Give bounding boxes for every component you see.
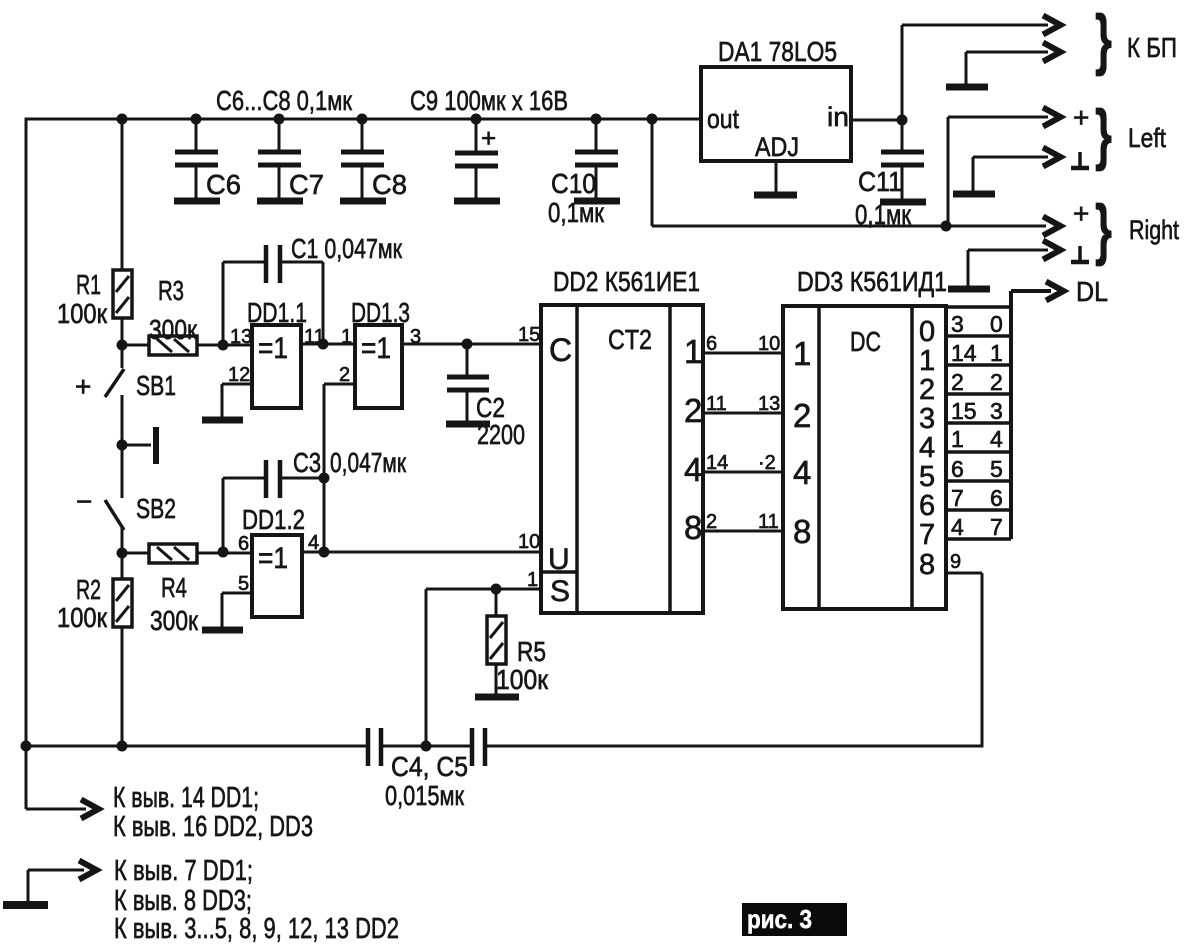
capacitor C11: [855, 120, 926, 230]
svg-text:2: 2: [706, 511, 717, 533]
svg-text:8: 8: [919, 549, 935, 581]
svg-text:SB2: SB2: [136, 493, 176, 524]
svg-text:6: 6: [238, 533, 249, 555]
svg-text:13: 13: [758, 393, 780, 415]
ground feeding Right ⊥ arrow: [948, 250, 1048, 289]
svg-text:300к: 300к: [149, 314, 198, 345]
junction dots on top bus: [117, 114, 952, 232]
svg-text:=1: =1: [258, 542, 288, 575]
resistor R3 300к: [122, 275, 252, 355]
svg-text:3: 3: [951, 311, 964, 337]
svg-text:−: −: [76, 486, 92, 517]
figure label рис. 3: [742, 903, 847, 936]
wire bottom bus right segment: [487, 745, 982, 748]
svg-text:4: 4: [684, 451, 702, 488]
svg-text:14: 14: [706, 452, 728, 474]
svg-text:}: }: [1095, 96, 1112, 172]
wire rail to regulator output row: [652, 119, 1046, 226]
svg-text:DD1.1: DD1.1: [247, 297, 307, 328]
svg-text:К выв. 14 DD1;: К выв. 14 DD1;: [113, 782, 259, 814]
svg-text:3: 3: [919, 403, 935, 435]
svg-text:+: +: [481, 123, 496, 153]
svg-text:R3: R3: [158, 275, 184, 306]
svg-text:R2: R2: [76, 574, 101, 605]
svg-text:out: out: [707, 104, 739, 134]
svg-text:0,1мк: 0,1мк: [855, 199, 912, 230]
svg-text:13: 13: [230, 326, 252, 348]
DL arrowhead: [1046, 282, 1064, 301]
svg-text:C1 0,047мк: C1 0,047мк: [291, 233, 403, 264]
svg-text:=1: =1: [258, 332, 288, 365]
logic gate DD1.3: [339, 297, 421, 408]
wire DD1.1 output to DD1.3 input: [301, 343, 355, 346]
logic gate DD1.1: [228, 297, 325, 408]
svg-text:0,1мк: 0,1мк: [548, 197, 605, 228]
svg-text:=1: =1: [361, 332, 391, 365]
svg-text:0,047мк: 0,047мк: [330, 447, 407, 478]
svg-text:C8: C8: [372, 169, 407, 200]
ground feeding К БП lower arrow: [946, 52, 1048, 87]
ground note arrowhead: [79, 861, 97, 880]
svg-text:1: 1: [951, 426, 964, 452]
svg-text:100к: 100к: [57, 602, 108, 633]
svg-text:300к: 300к: [150, 605, 199, 636]
ladder right bus up to DL: [1011, 291, 1051, 539]
Right ⊥ arrowhead: [1043, 241, 1061, 260]
svg-text:1: 1: [919, 345, 935, 377]
svg-text:7: 7: [951, 485, 964, 511]
svg-text:SB1: SB1: [136, 370, 176, 401]
Right + arrowhead on supply rail: [1043, 217, 1061, 236]
wire DD3 output 8 pin 9 down to bottom bus: [946, 573, 982, 746]
svg-text:15: 15: [951, 398, 977, 424]
label ⊥ (Left): [1071, 152, 1089, 168]
svg-text:R4: R4: [161, 572, 187, 603]
wire to К БП upper arrow: [902, 25, 1048, 120]
wire left rail: [25, 119, 28, 746]
capacitor C7: [257, 119, 324, 201]
svg-text:К выв. 7 DD1;: К выв. 7 DD1;: [114, 855, 253, 887]
svg-text:C10: C10: [551, 168, 596, 199]
Left + arrowhead: [1043, 108, 1061, 127]
svg-text:2: 2: [919, 374, 935, 406]
svg-text:11: 11: [758, 511, 779, 533]
switch SB1: [75, 345, 176, 445]
svg-text:2: 2: [684, 392, 702, 429]
wire bottom bus left segment: [26, 745, 367, 748]
svg-text:}: }: [1095, 191, 1112, 267]
svg-text:4: 4: [951, 514, 964, 540]
ground at DD1.1 pin 12: [202, 384, 252, 420]
svg-text:DD1.2: DD1.2: [242, 504, 305, 535]
resistor R4 300к: [122, 544, 252, 636]
ground symbol bottom left: [3, 870, 84, 905]
svg-text:8: 8: [793, 513, 811, 550]
svg-text:CT2: CT2: [608, 324, 652, 355]
svg-text:2: 2: [990, 369, 1003, 395]
logic gate DD1.2: [238, 504, 319, 617]
label ⊥ (Right): [1071, 246, 1089, 262]
svg-text:·2: ·2: [758, 452, 776, 474]
capacitor C9 (electrolytic): [454, 119, 500, 201]
svg-text:1: 1: [990, 340, 1003, 366]
capacitor C3 0,047мк feedback loop: [223, 447, 407, 552]
К БП upper arrowhead: [1043, 16, 1061, 35]
svg-text:2: 2: [793, 397, 811, 434]
svg-text:9: 9: [950, 551, 961, 573]
ground feeding Left ⊥ arrow: [953, 157, 1048, 194]
svg-text:10: 10: [518, 531, 540, 553]
svg-text:+: +: [1073, 102, 1089, 133]
Left ⊥ arrowhead: [1043, 148, 1061, 167]
svg-text:C6: C6: [206, 169, 241, 200]
sensor plate node between SB1 and SB2: [122, 427, 156, 464]
ladder row pin numbers: [951, 311, 1003, 540]
wire DD2 out4 to DD3 in4: [703, 471, 783, 474]
svg-text:4: 4: [793, 454, 811, 491]
IC DD3 К561ИД1 decoder: [783, 306, 946, 609]
svg-text:DC: DC: [850, 326, 881, 357]
resistor R1 100к: [57, 119, 132, 344]
svg-text:DL: DL: [1076, 276, 1108, 307]
wire DD1.3 pin2 from lower node: [324, 384, 355, 552]
svg-text:U: U: [548, 543, 570, 576]
svg-text:6: 6: [951, 456, 964, 482]
wire top supply bus: [26, 118, 701, 121]
svg-text:3: 3: [990, 398, 1003, 424]
svg-text:}: }: [1095, 1, 1112, 77]
capacitor C5: [472, 728, 485, 766]
resistor R5 100к: [475, 589, 549, 697]
svg-text:2: 2: [951, 369, 964, 395]
svg-text:ADJ: ADJ: [755, 132, 799, 162]
output pin box ladder rows 0-7: [946, 307, 1011, 539]
ground of DA1 ADJ: [754, 161, 797, 195]
switch SB2: [76, 445, 176, 553]
svg-text:C3: C3: [293, 447, 321, 478]
capacitor C2 2200: [446, 344, 525, 450]
svg-text:11: 11: [706, 393, 727, 415]
svg-text:C6...C8 0,1мк: C6...C8 0,1мк: [216, 85, 353, 116]
wire S input from C4/C5 node: [426, 589, 541, 746]
svg-text:Left: Left: [1128, 123, 1166, 153]
svg-text:0: 0: [919, 316, 935, 348]
svg-text:C: C: [549, 332, 572, 368]
К БП lower arrowhead: [1043, 43, 1061, 62]
wire DD1.2 output to DD2 pin U: [302, 551, 541, 554]
svg-text:R5: R5: [517, 636, 546, 667]
svg-text:К выв. 16 DD2, DD3: К выв. 16 DD2, DD3: [113, 811, 313, 843]
capacitor C8: [340, 119, 407, 201]
svg-text:R1: R1: [76, 269, 101, 300]
svg-text:DD1.3: DD1.3: [351, 297, 410, 328]
wire DD2 out2 to DD3 in2: [703, 412, 783, 415]
svg-text:5: 5: [990, 456, 1003, 482]
wire bottom bus mid segment: [383, 745, 471, 748]
svg-text:8: 8: [684, 509, 702, 546]
svg-text:рис. 3: рис. 3: [747, 904, 812, 934]
svg-text:1: 1: [527, 569, 538, 591]
svg-text:10: 10: [758, 333, 780, 355]
svg-text:Right: Right: [1129, 215, 1179, 245]
svg-text:6: 6: [919, 490, 935, 522]
svg-text:0,015мк: 0,015мк: [385, 780, 465, 811]
IC DD2 К561ИЕ1 counter: [541, 305, 703, 613]
wire DD2 out8 to DD3 in8: [703, 530, 783, 533]
wire left rail to supply note arrow: [26, 746, 86, 809]
svg-text:C4, C5: C4, C5: [391, 751, 468, 782]
svg-text:14: 14: [951, 340, 977, 366]
svg-text:DA1 78LO5: DA1 78LO5: [718, 36, 837, 67]
wire DD1.3 output to DD2 pin C: [402, 343, 541, 346]
svg-text:in: in: [827, 102, 849, 132]
svg-text:DD2 К561ИЕ1: DD2 К561ИЕ1: [553, 266, 700, 297]
svg-text:6: 6: [990, 485, 1003, 511]
svg-text:6: 6: [706, 333, 717, 355]
wire DA1 in to C11 node: [851, 119, 902, 122]
junction dot C4/C5 node: [421, 741, 432, 752]
resistor R2 100к: [57, 553, 132, 746]
svg-text:+: +: [1073, 198, 1089, 229]
junction dots left section: [21, 339, 473, 752]
svg-text:1: 1: [684, 333, 702, 370]
svg-text:2200: 2200: [477, 419, 525, 450]
svg-text:4: 4: [919, 432, 935, 464]
svg-text:К выв. 3...5, 8, 9, 12, 13 DD2: К выв. 3...5, 8, 9, 12, 13 DD2: [114, 913, 399, 945]
capacitor C10: [548, 119, 620, 228]
wire DD2 out1 to DD3 in1: [703, 352, 783, 355]
svg-text:К БП: К БП: [1127, 32, 1177, 63]
junction dot S node at R5: [491, 584, 502, 595]
svg-text:0: 0: [990, 311, 1003, 337]
svg-text:100к: 100к: [57, 298, 108, 329]
svg-text:1: 1: [793, 335, 811, 372]
svg-text:1: 1: [341, 326, 352, 348]
capacitor C6: [174, 119, 241, 201]
wire Left + arrow from supply rail: [948, 117, 1048, 226]
supply note arrowhead: [81, 800, 99, 819]
svg-text:7: 7: [990, 514, 1003, 540]
capacitor C1 0,047мк feedback loop: [223, 233, 403, 345]
svg-text:7: 7: [919, 519, 935, 551]
ground at DD1.2 pin 5: [202, 593, 252, 630]
svg-text:DD3 К561ИД1: DD3 К561ИД1: [797, 266, 947, 297]
svg-text:S: S: [550, 575, 570, 608]
svg-text:4: 4: [990, 426, 1003, 452]
svg-text:C9 100мк x 16В: C9 100мк x 16В: [410, 85, 568, 116]
svg-text:15: 15: [518, 324, 540, 346]
svg-text:5: 5: [919, 461, 935, 493]
op-amp U DA1 78LO5 regulator: [701, 36, 851, 162]
svg-text:C11: C11: [858, 166, 902, 197]
svg-text:+: +: [75, 371, 91, 402]
svg-text:C7: C7: [289, 169, 324, 200]
svg-text:100к: 100к: [496, 664, 549, 695]
capacitor C4: [368, 728, 381, 766]
